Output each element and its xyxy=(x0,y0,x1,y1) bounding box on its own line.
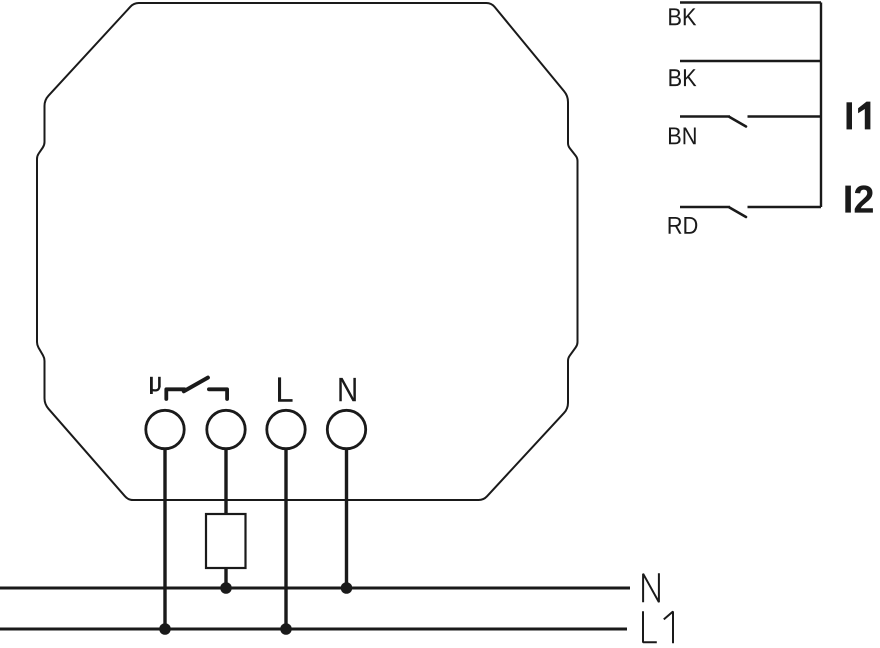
junction terminalN/N xyxy=(341,582,353,594)
junction terminalL/L1 xyxy=(280,623,292,635)
wire terminal N to N bus xyxy=(345,449,348,588)
device outline (flush-mount actuator octagon) xyxy=(37,3,578,500)
wire BN left segment xyxy=(680,115,730,117)
label BK (second) xyxy=(669,69,696,86)
L1 bus line xyxy=(0,628,627,631)
switch blade RD (input I2) xyxy=(730,208,747,218)
relay contact left lead xyxy=(166,389,184,399)
label BK (top) xyxy=(669,8,696,25)
wire BK top xyxy=(680,1,821,3)
junction terminal1/L1 xyxy=(159,623,171,635)
wire BN right segment xyxy=(748,115,822,117)
N bus line xyxy=(0,587,630,590)
wire RD right segment xyxy=(748,206,822,208)
wire RD left segment xyxy=(680,206,730,208)
wire terminal1 to L1 xyxy=(163,449,166,629)
label L (terminal 3) xyxy=(278,377,293,401)
label RD xyxy=(669,217,698,234)
wire BK second xyxy=(680,60,821,62)
label L1 (L1 bus) xyxy=(643,611,673,643)
relay contact blade xyxy=(184,378,208,392)
wire terminal L to L1 xyxy=(284,449,287,629)
label I2 xyxy=(845,185,873,212)
label N (terminal 4) xyxy=(339,378,356,401)
relay contact right lead xyxy=(209,389,227,399)
label I1 xyxy=(847,102,871,130)
switch blade BN (input I1) xyxy=(730,117,747,127)
vertical collector bus (inputs) xyxy=(820,3,822,208)
terminal 2 (contact output) xyxy=(207,410,245,448)
terminal N xyxy=(327,410,365,448)
terminal 1 (contact input) xyxy=(146,410,184,448)
terminal L xyxy=(267,410,305,448)
junction load/N xyxy=(220,582,232,594)
relay contact micro-gap label (mu) xyxy=(151,377,159,394)
label BN xyxy=(669,127,696,144)
label N (N bus) xyxy=(643,573,659,602)
wire terminal2 to load xyxy=(224,449,227,514)
load (consumer) rectangle xyxy=(206,514,246,568)
wire load to N bus xyxy=(224,568,227,588)
